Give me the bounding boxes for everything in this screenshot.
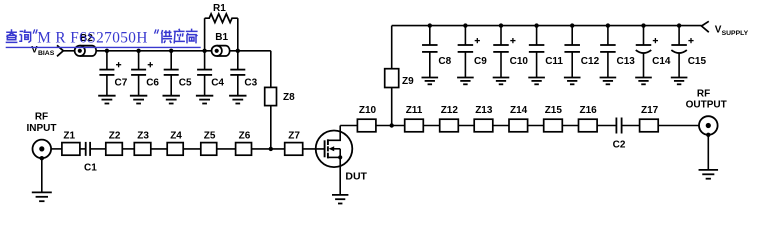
wire connector to Z1 [51,148,62,150]
capacitor C1 [84,142,97,174]
svg-text:BIAS: BIAS [38,50,55,57]
wire Z4 to Z5 [183,148,201,150]
svg-text:Z2: Z2 [109,131,121,142]
svg-text:Z15: Z15 [545,105,563,116]
junction C3/R1/rail [236,49,240,53]
junction C12/rail [570,23,574,27]
capacitor C10 [493,26,529,85]
svg-text:C2: C2 [613,140,626,151]
wire Z5 to Z6 [217,148,236,150]
node VBIAS input terminal [31,45,63,58]
svg-text:OUTPUT: OUTPUT [686,100,727,111]
wire bias feed down to Z8 [270,51,272,149]
impedance Z1 [62,131,80,156]
svg-text:C8: C8 [438,56,451,67]
junction C4/R1/rail [202,49,206,53]
svg-text:Z16: Z16 [580,105,598,116]
svg-text:SUPPLY: SUPPLY [722,30,749,37]
impedance Z13 [474,105,493,132]
transistor DUT (MOSFET) [316,126,368,183]
svg-text:Z12: Z12 [441,105,459,116]
ground (RF input) [32,191,52,193]
impedance Z9 [385,69,414,88]
watermark link closing quote [155,29,159,33]
svg-text:Z13: Z13 [475,105,493,116]
junction C6/rail [136,49,140,53]
capacitor C6 [130,51,160,104]
junction C15/rail [677,23,681,27]
junction bias feed/input line [269,147,273,151]
wire VSUPPLY rail [392,25,702,27]
capacitor C15 [671,26,707,85]
svg-text:R1: R1 [213,3,226,14]
wire Z1 to C1 [80,148,86,150]
svg-text:Z4: Z4 [170,131,182,142]
junction output connector/ground stub [706,133,710,137]
impedance Z7 [285,131,303,156]
capacitor C13 [600,26,636,85]
wire DUT source to ground [339,157,341,195]
impedance Z8 [265,87,295,105]
capacitor C8 [422,26,452,85]
svg-text:RF: RF [35,112,48,123]
junction supply feed/output line [390,123,394,127]
junction C7/rail [105,49,109,53]
svg-text:Z17: Z17 [641,105,659,116]
ferrite bead B2 [75,33,97,56]
impedance Z17 [640,105,659,132]
wire supply feed down to Z9 [391,26,393,126]
wire DUT drain to Z10 [340,125,357,127]
svg-text:M R F6S27050H: M R F6S27050H [37,30,148,47]
watermark link text (suppliers) [161,29,197,44]
label RF INPUT [27,112,57,134]
junction C5/rail [169,49,173,53]
wire Z14 to Z15 [528,125,544,127]
impedance Z15 [544,105,563,132]
impedance Z10 [357,105,376,132]
wire VBIAS rail [63,50,270,52]
wire Z17 to output connector [658,125,699,127]
capacitor C12 [564,26,600,85]
svg-text:C6: C6 [146,78,159,89]
wire Z10 to supply feed node [376,125,405,127]
svg-text:C15: C15 [688,56,707,67]
wire Z2 to Z3 [122,148,134,150]
junction C13/rail [606,23,610,27]
junction C11/rail [534,23,538,27]
svg-text:Z14: Z14 [510,105,528,116]
wire Z3 to Z4 [151,148,167,150]
watermark link opening quote [33,29,37,33]
svg-text:RF: RF [697,89,710,100]
svg-text:C14: C14 [652,56,671,67]
impedance Z12 [440,105,459,132]
svg-text:C5: C5 [179,78,192,89]
RF input connector [33,140,52,159]
junction C10/rail [499,23,503,27]
capacitor C5 [163,51,193,104]
ferrite bead B1 [212,32,230,56]
capacitor C14 [635,26,671,85]
impedance Z3 [134,131,151,156]
impedance Z2 [106,131,123,156]
wire Z13 to Z14 [493,125,509,127]
node VSUPPLY terminal [702,21,749,37]
capacitor C7 [98,51,128,104]
svg-text:Z9: Z9 [402,76,414,87]
RF output connector [699,116,718,135]
svg-text:C7: C7 [115,78,128,89]
junction C14/rail [641,23,645,27]
svg-text:B1: B1 [215,32,228,43]
label RF OUTPUT [686,89,727,111]
watermark link underline [6,46,201,48]
svg-text:INPUT: INPUT [27,123,57,134]
svg-text:C3: C3 [244,78,257,89]
svg-text:Z6: Z6 [239,131,251,142]
capacitor C9 [457,26,487,85]
svg-text:Z10: Z10 [359,105,377,116]
ground (DUT source) [332,194,348,196]
wire C2 to Z17 [622,125,640,127]
impedance Z6 [236,131,252,156]
capacitor C2 [613,118,626,151]
plus polarity C6 [148,64,153,66]
plus polarity C9 [475,40,480,42]
impedance Z5 [201,131,217,156]
svg-text:C12: C12 [581,56,600,67]
svg-text:Z1: Z1 [63,131,75,142]
wire Z12 to Z13 [458,125,474,127]
wire Z7 to DUT gate [303,148,325,150]
svg-text:Z7: Z7 [288,131,300,142]
plus polarity C10 [510,40,515,42]
capacitor C11 [528,26,563,85]
wire Z16 to C2 [597,125,616,127]
junction C9/rail [463,23,467,27]
svg-text:C13: C13 [617,56,636,67]
watermark link text (Chinese + part number) [6,29,31,42]
ground (RF output) [699,169,719,171]
svg-text:DUT: DUT [345,170,367,182]
svg-text:C4: C4 [211,78,224,89]
plus polarity C14 [653,40,658,42]
svg-text:Z11: Z11 [406,105,423,116]
wire Z11 to Z12 [423,125,439,127]
svg-text:Z8: Z8 [283,92,295,103]
impedance Z14 [509,105,528,132]
svg-text:C11: C11 [545,56,563,67]
svg-text:C10: C10 [510,56,529,67]
plus polarity C15 [688,40,693,42]
wire output connector stub to ground [707,135,709,170]
svg-text:C9: C9 [474,56,487,67]
impedance Z11 [405,105,424,132]
impedance Z4 [167,131,183,156]
junction C8/rail [428,23,432,27]
wire Z6 to Z7 [252,148,285,150]
impedance Z16 [579,105,598,132]
svg-text:Z5: Z5 [204,131,216,142]
wire Z15 to Z16 [562,125,578,127]
capacitor C3 [229,51,258,104]
svg-text:Z3: Z3 [137,131,149,142]
plus polarity C7 [116,64,121,66]
resistor R1 [205,3,238,51]
svg-text:C1: C1 [84,163,97,174]
capacitor C4 [196,51,225,104]
junction connector/ground stub [40,156,44,160]
wire C1 to Z2 [90,148,106,150]
wire input connector stub to ground [41,158,43,192]
